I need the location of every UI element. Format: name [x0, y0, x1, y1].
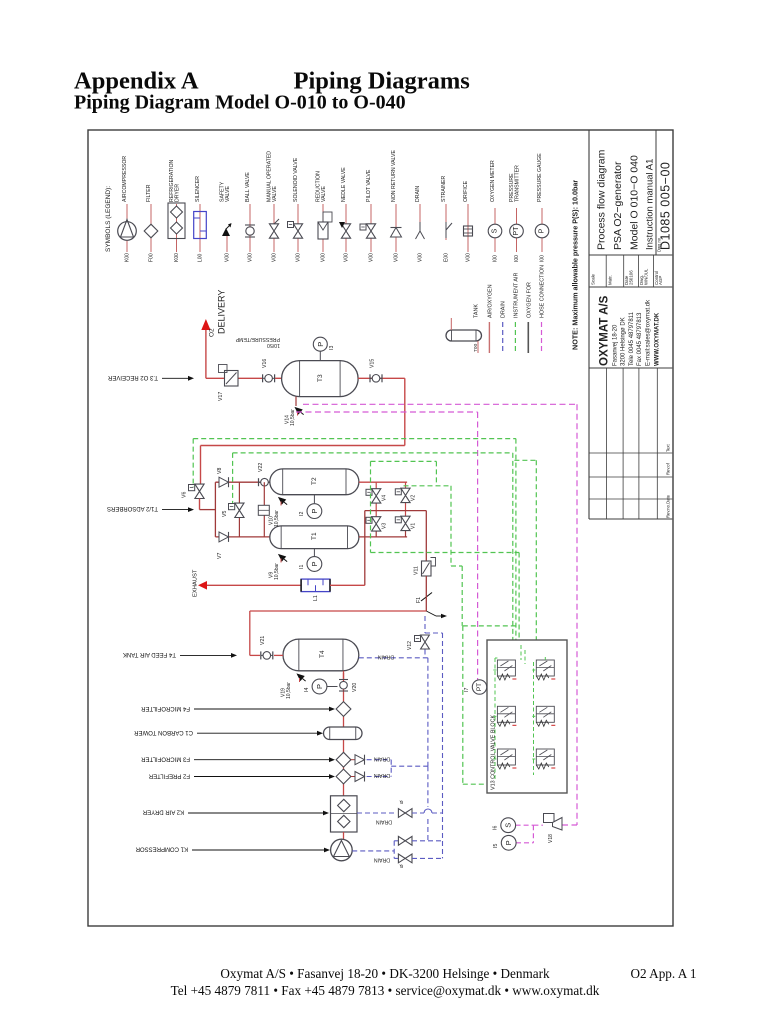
svg-text:Rev.of: Rev.of	[666, 462, 671, 475]
svg-text:Piping Diagrams: Piping Diagrams	[294, 68, 470, 95]
svg-text:L1: L1	[313, 595, 319, 601]
svg-text:STRAINER: STRAINER	[441, 176, 447, 202]
svg-text:PRESSURE/TEMP: PRESSURE/TEMP	[235, 336, 280, 342]
svg-text:S: S	[504, 823, 513, 828]
svg-text:V00: V00	[418, 253, 424, 262]
svg-text:V3: V3	[382, 523, 388, 529]
svg-text:AGP: AGP	[658, 276, 663, 285]
svg-text:V8: V8	[217, 468, 223, 474]
svg-text:TANK: TANK	[474, 304, 480, 318]
svg-text:V17: V17	[218, 392, 224, 401]
svg-text:10,5bar: 10,5bar	[290, 409, 296, 426]
svg-text:VALVE: VALVE	[321, 186, 327, 202]
svg-text:S: S	[492, 228, 499, 233]
svg-text:Rev.no.Date: Rev.no.Date	[666, 494, 671, 518]
svg-text:V00: V00	[296, 253, 302, 262]
svg-text:SILENCER: SILENCER	[195, 176, 201, 202]
svg-text:Ø: Ø	[399, 800, 404, 804]
svg-text:SYMBOLS (LEGEND):: SYMBOLS (LEGEND):	[105, 186, 112, 252]
svg-text:Appendix A: Appendix A	[74, 68, 199, 95]
svg-text:DRAIN: DRAIN	[374, 856, 390, 862]
svg-text:Tele 0045 48797811: Tele 0045 48797811	[629, 311, 635, 366]
svg-text:Ø: Ø	[399, 864, 404, 868]
svg-text:P: P	[504, 840, 513, 845]
svg-text:V00: V00	[321, 253, 327, 262]
svg-text:250106: 250106	[629, 270, 634, 285]
svg-text:F2 PREFILTER: F2 PREFILTER	[148, 773, 190, 779]
svg-text:AIRCOMPRESSOR: AIRCOMPRESSOR	[122, 156, 128, 202]
svg-text:SOLENOID VALVE: SOLENOID VALVE	[293, 157, 299, 202]
svg-text:OXYGEN FOR: OXYGEN FOR	[526, 282, 532, 318]
svg-text:INSTRUMENT AIR: INSTRUMENT AIR	[513, 272, 519, 318]
svg-text:V00: V00	[466, 253, 472, 262]
svg-text:F3 MICROFILTER: F3 MICROFILTER	[140, 756, 190, 762]
svg-text:OXYGEN METER: OXYGEN METER	[490, 160, 496, 202]
svg-text:P: P	[539, 228, 546, 233]
svg-text:Fax 0045 48797813: Fax 0045 48797813	[637, 312, 643, 366]
svg-text:I3: I3	[329, 346, 335, 350]
svg-text:DRYER: DRYER	[175, 184, 181, 202]
svg-text:F00: F00	[149, 253, 155, 262]
svg-text:T1: T1	[311, 532, 318, 540]
svg-text:WN/JUL: WN/JUL	[644, 268, 649, 285]
svg-text:Piping Diagram Model O-010 to: Piping Diagram Model O-010 to O-040	[74, 92, 406, 114]
svg-text:V11: V11	[414, 566, 420, 575]
svg-text:DRAIN: DRAIN	[374, 756, 390, 762]
svg-text:L00: L00	[198, 253, 204, 262]
svg-text:NON RETURN VALVE: NON RETURN VALVE	[391, 149, 397, 202]
svg-text:I6: I6	[493, 826, 499, 830]
svg-text:T2: T2	[311, 477, 318, 485]
svg-text:O2: O2	[209, 328, 216, 337]
svg-text:V00: V00	[272, 253, 278, 262]
svg-text:V12: V12	[407, 641, 413, 650]
svg-text:I7: I7	[464, 688, 470, 692]
svg-text:V00: V00	[225, 253, 231, 262]
svg-text:PILOT VALVE: PILOT VALVE	[366, 169, 372, 202]
svg-text:NEDLE VALVE: NEDLE VALVE	[341, 167, 347, 202]
svg-text:I2: I2	[299, 512, 305, 516]
svg-text:V20: V20	[352, 683, 358, 692]
svg-text:V00: V00	[369, 253, 375, 262]
svg-text:DRAIN: DRAIN	[376, 819, 392, 825]
svg-text:V00: V00	[394, 253, 400, 262]
svg-text:WWW.OXYMAT.DK: WWW.OXYMAT.DK	[655, 312, 661, 366]
svg-text:OXYMAT A/S: OXYMAT A/S	[599, 295, 611, 366]
svg-text:V13 CONTROL VALVE BLOCK: V13 CONTROL VALVE BLOCK	[491, 715, 497, 790]
svg-text:V15: V15	[370, 359, 376, 368]
svg-text:V00: V00	[248, 253, 254, 262]
svg-text:V1: V1	[411, 523, 417, 529]
svg-text:Model O 010−O 040: Model O 010−O 040	[629, 155, 641, 250]
svg-text:VALVE: VALVE	[225, 186, 231, 202]
svg-text:I00: I00	[514, 255, 520, 262]
svg-text:V18: V18	[548, 834, 554, 843]
svg-text:V2: V2	[411, 495, 417, 501]
svg-text:E00: E00	[444, 253, 450, 262]
svg-text:10,5bar: 10,5bar	[274, 510, 280, 527]
svg-text:F4 MICROFILTER: F4 MICROFILTER	[140, 705, 190, 711]
svg-text:O2 App. A 1: O2 App. A 1	[631, 966, 697, 981]
svg-text:PT: PT	[476, 683, 483, 691]
svg-text:P: P	[310, 509, 319, 514]
svg-text:T00: T00	[473, 343, 479, 352]
svg-text:F1: F1	[416, 597, 422, 603]
svg-text:ORIFICE: ORIFICE	[463, 180, 469, 202]
svg-text:I5: I5	[493, 844, 499, 848]
svg-text:I00: I00	[493, 255, 499, 262]
svg-text:V00: V00	[344, 253, 350, 262]
svg-text:T4: T4	[319, 650, 326, 658]
svg-text:Instruction manual A1: Instruction manual A1	[645, 159, 656, 250]
svg-text:P: P	[315, 684, 324, 689]
svg-text:PRESSURE GAUGE: PRESSURE GAUGE	[537, 153, 543, 202]
svg-text:FILTER: FILTER	[146, 184, 152, 202]
svg-text:V21: V21	[260, 636, 266, 645]
svg-text:Matr.: Matr.	[608, 275, 613, 285]
svg-text:V22: V22	[258, 463, 264, 472]
svg-text:10,5bar: 10,5bar	[274, 563, 280, 580]
svg-text:DRAIN: DRAIN	[415, 186, 421, 202]
svg-text:DRAIN: DRAIN	[374, 772, 390, 778]
svg-text:K00: K00	[125, 253, 131, 262]
svg-text:V16: V16	[262, 359, 268, 368]
svg-text:HOSE CONNECTION: HOSE CONNECTION	[540, 265, 546, 318]
svg-text:10,5bar: 10,5bar	[286, 682, 292, 699]
svg-text:PT: PT	[513, 226, 520, 236]
svg-text:Scale: Scale	[591, 273, 596, 285]
svg-text:I00: I00	[540, 255, 546, 262]
svg-text:K1 COMPRESSOR: K1 COMPRESSOR	[135, 846, 188, 852]
svg-text:I4: I4	[304, 688, 310, 692]
svg-text:Text: Text	[666, 443, 671, 452]
svg-text:P: P	[316, 342, 325, 347]
svg-text:V7: V7	[217, 553, 223, 559]
svg-text:V6: V6	[182, 492, 188, 498]
svg-text:Oxymat A/S • Fasanvej 18-20 •: Oxymat A/S • Fasanvej 18-20 • DK-3200 He…	[220, 966, 550, 981]
svg-text:NOTE: Maximum allowable pre: NOTE: Maximum allowable pressure P(S): 1…	[571, 180, 580, 350]
svg-text:VALVE: VALVE	[272, 186, 278, 202]
svg-text:T.3 O2 RECEIVER: T.3 O2 RECEIVER	[107, 374, 158, 380]
svg-text:AIR/OXYGEN: AIR/OXYGEN	[487, 284, 493, 318]
svg-text:K2 AIR DRYER: K2 AIR DRYER	[142, 809, 184, 815]
svg-text:P: P	[310, 561, 319, 566]
svg-text:V5: V5	[222, 511, 228, 517]
svg-text:T3: T3	[317, 374, 324, 382]
svg-text:I1: I1	[299, 565, 305, 569]
svg-text:T4 FEED AIR TANK: T4 FEED AIR TANK	[123, 651, 176, 657]
svg-text:Tel +45 4879 7811 • Fax +45 48: Tel +45 4879 7811 • Fax +45 4879 7813 • …	[171, 983, 600, 998]
svg-text:DELIVERY: DELIVERY	[217, 290, 227, 334]
svg-text:EXHAUST: EXHAUST	[193, 569, 199, 597]
svg-text:DRAIN: DRAIN	[378, 654, 394, 660]
svg-text:DRAIN: DRAIN	[501, 301, 507, 318]
svg-text:TRANSMITTER: TRANSMITTER	[515, 165, 521, 202]
svg-text:3200 Helsingø DK: 3200 Helsingø DK	[621, 317, 627, 366]
svg-text:PSA O2−generator: PSA O2−generator	[612, 161, 624, 250]
svg-text:Fasanvej 18-20: Fasanvej 18-20	[613, 324, 619, 366]
svg-text:BALL VALVE: BALL VALVE	[245, 172, 251, 202]
svg-text:E-mail:sales@oxymat.dk: E-mail:sales@oxymat.dk	[646, 299, 652, 366]
svg-text:C1 CARBON TOWER: C1 CARBON TOWER	[134, 729, 193, 735]
svg-text:D1085 005−00: D1085 005−00	[659, 162, 673, 250]
svg-text:T1/2 ADSORBERS: T1/2 ADSORBERS	[107, 505, 158, 511]
svg-text:V4: V4	[382, 495, 388, 501]
svg-text:K00: K00	[174, 253, 180, 262]
svg-text:Process flow diagram: Process flow diagram	[596, 149, 608, 250]
